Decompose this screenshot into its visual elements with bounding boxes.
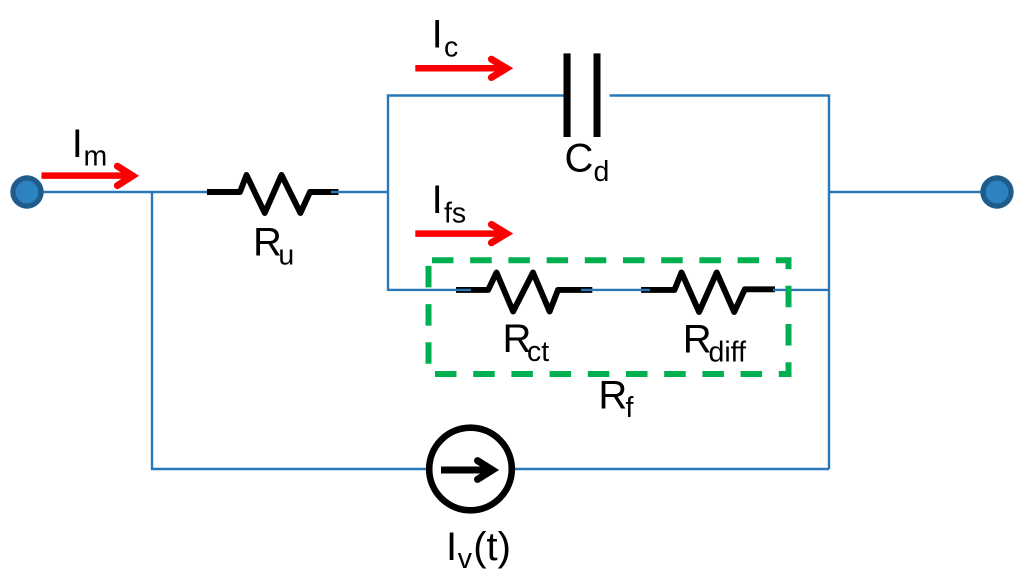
svg-text:I: I (446, 525, 457, 569)
resistor Rct (456, 273, 592, 312)
svg-text:I: I (432, 178, 443, 222)
wire: faradaic branch right (773, 289, 829, 291)
label Ic (432, 13, 459, 64)
svg-text:f: f (626, 392, 634, 424)
current source Iv (429, 428, 512, 511)
svg-text:R: R (683, 317, 712, 361)
svg-text:fs: fs (444, 198, 466, 230)
label Rct (503, 317, 550, 368)
svg-text:c: c (444, 32, 458, 64)
svg-text:v: v (458, 543, 473, 575)
svg-text:u: u (278, 240, 294, 272)
svg-text:C: C (565, 137, 594, 181)
svg-text:diff: diff (709, 337, 747, 369)
svg-text:d: d (594, 156, 610, 188)
left terminal (10, 175, 43, 208)
label Im (72, 122, 107, 173)
svg-text:(t): (t) (473, 525, 511, 569)
svg-text:I: I (432, 13, 443, 57)
label Rf (598, 373, 633, 424)
capacitor Cd (564, 53, 601, 137)
svg-text:m: m (84, 141, 108, 173)
wire: top branch right of capacitor and parallel box right vertical (610, 96, 829, 470)
wire: left branch vertical and bottom branch horizontal (152, 192, 829, 469)
arrow Im (42, 166, 133, 185)
resistor Rdiff (641, 273, 775, 313)
label Cd (565, 137, 610, 189)
wire: main horizontal over Ru right lead to box (331, 191, 389, 193)
wire: main horizontal right segment (829, 191, 997, 193)
svg-text:R: R (598, 373, 627, 417)
svg-text:I: I (72, 122, 83, 166)
wire: faradaic branch left (388, 289, 471, 291)
arrow Ifs (415, 224, 506, 242)
svg-text:ct: ct (527, 336, 549, 368)
label Ifs (432, 178, 467, 230)
wire: faradaic branch between Rct and Rdiff (581, 289, 650, 291)
wire: parallel box left vertical and top branch left of capacitor (388, 96, 569, 292)
resistor Ru (207, 175, 339, 213)
green dashed box Rf (429, 260, 789, 374)
label Rdiff (683, 317, 746, 368)
label Iv(t) (446, 525, 511, 575)
label Ru (253, 221, 294, 272)
wire: main horizontal left segment (27, 191, 207, 193)
arrow Ic (415, 59, 506, 77)
right terminal (980, 175, 1013, 208)
